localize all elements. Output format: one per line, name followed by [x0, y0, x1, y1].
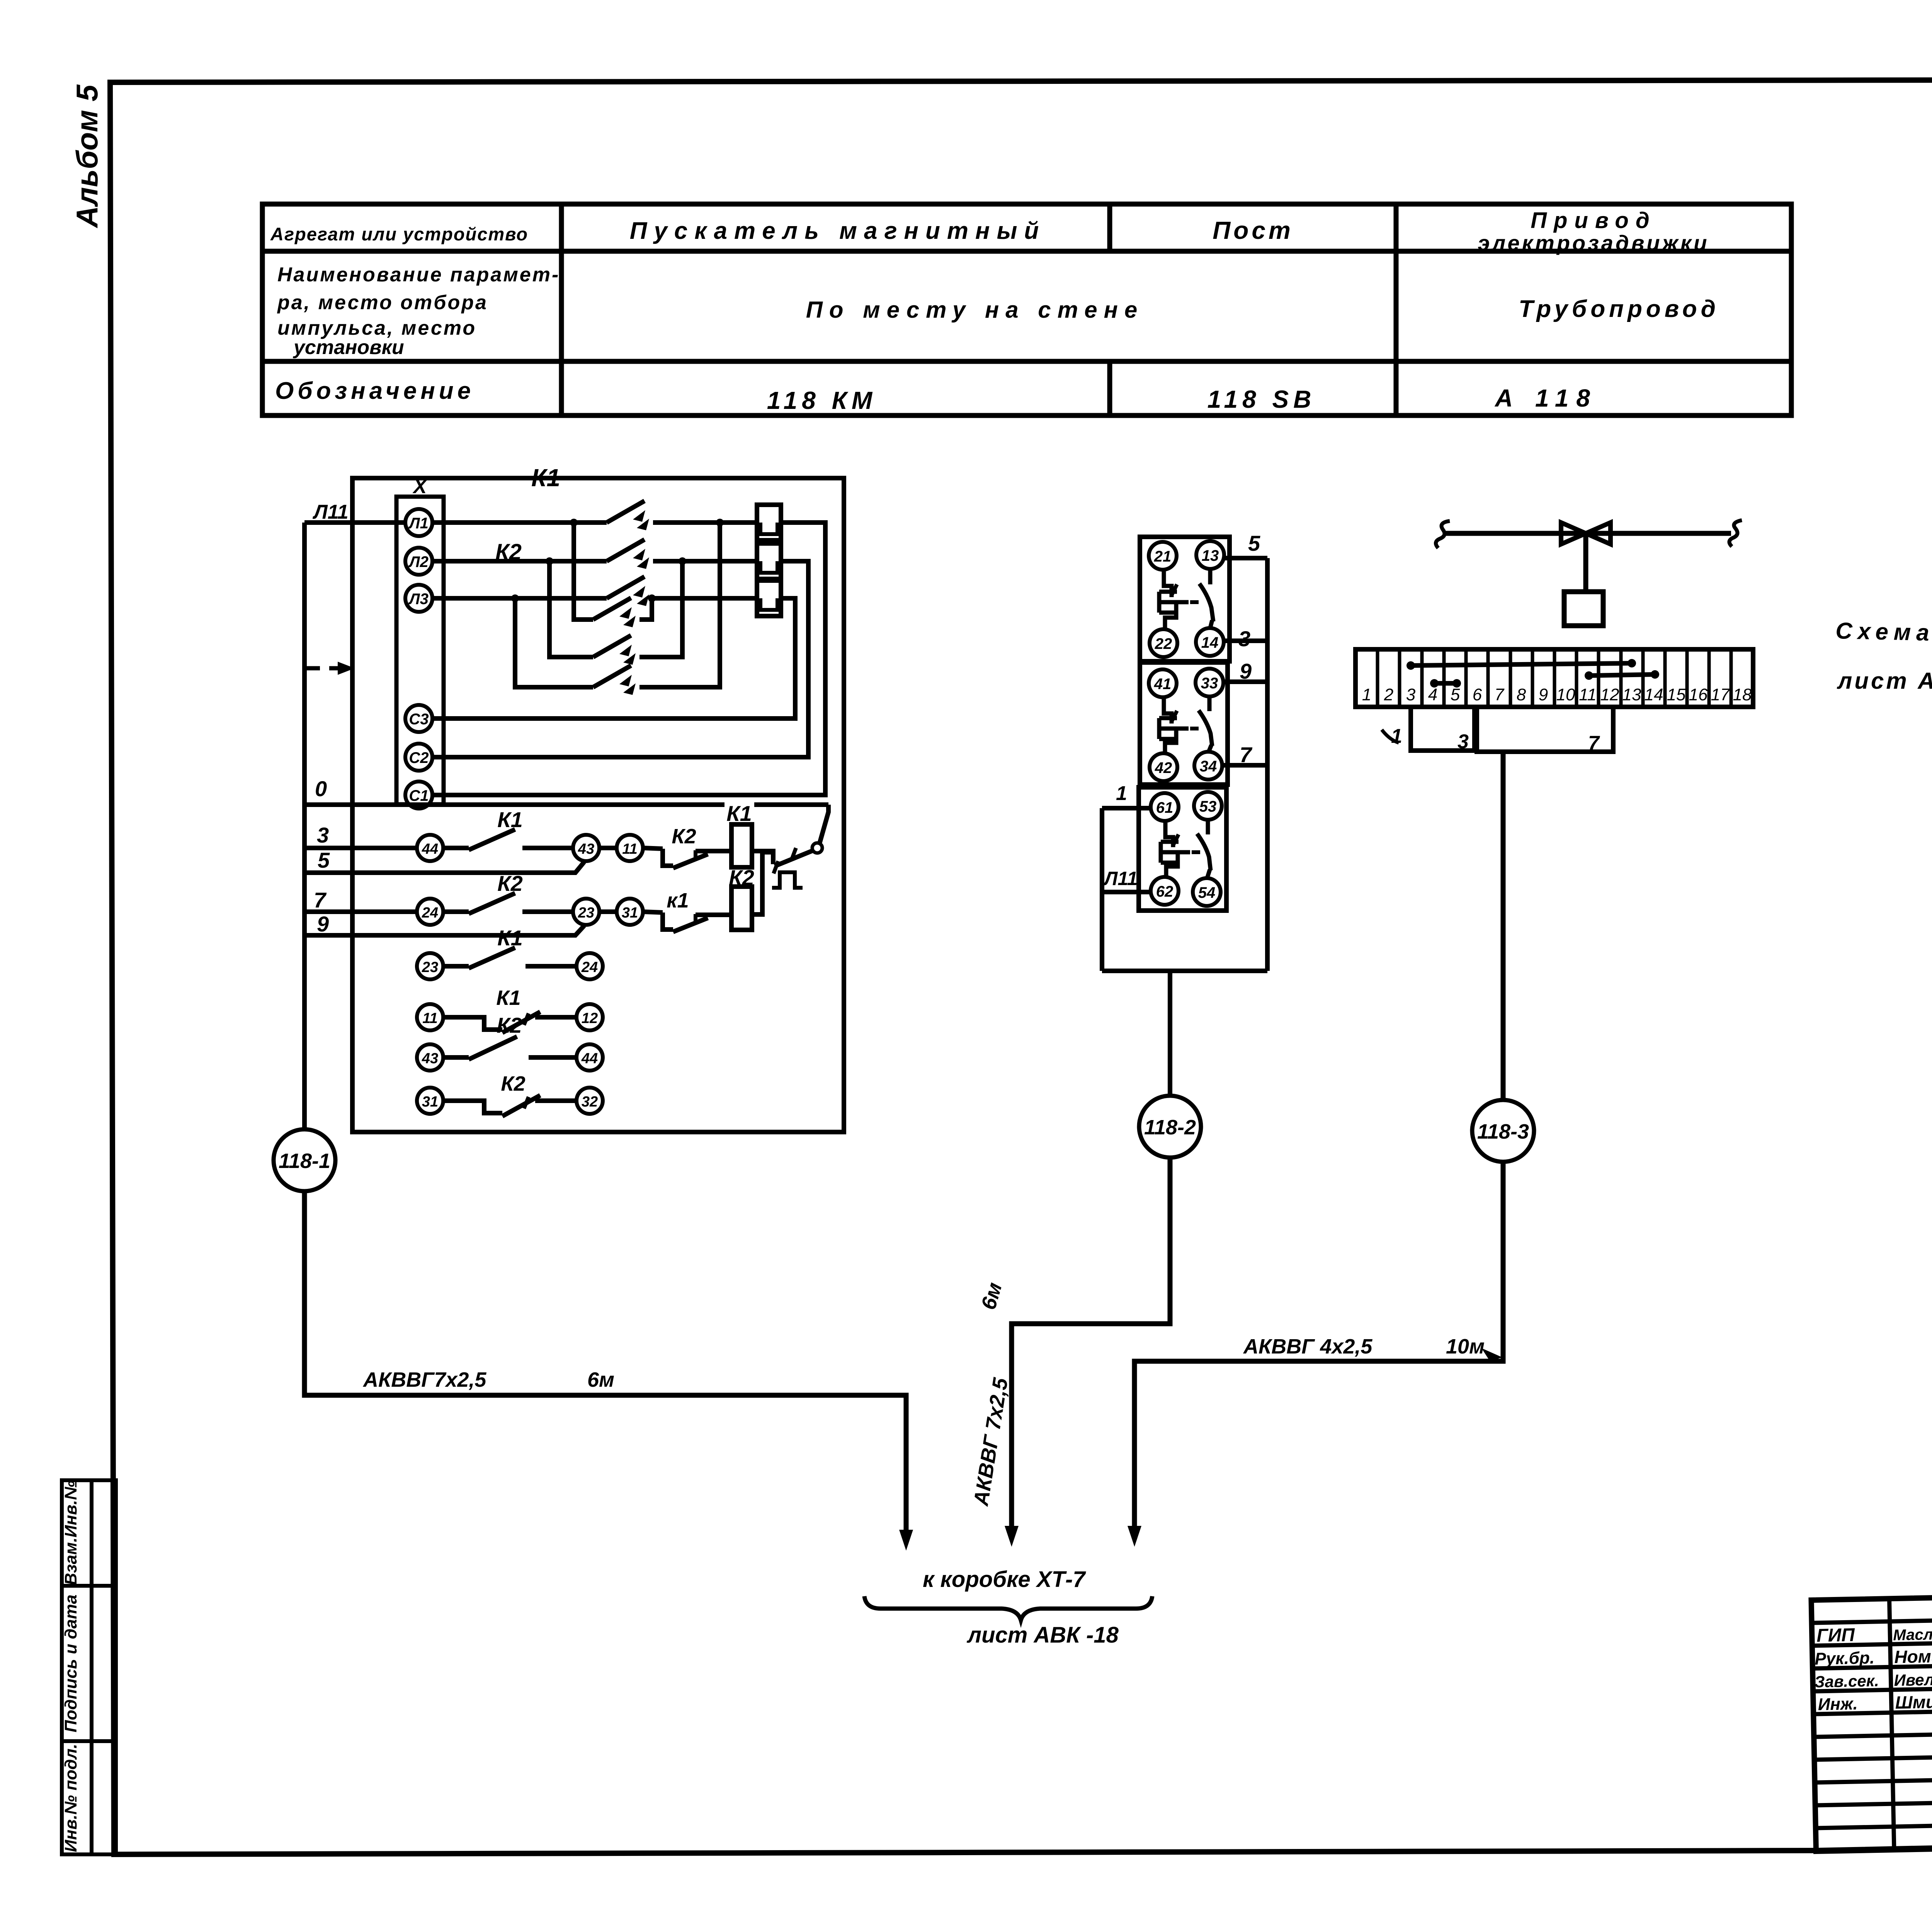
wire button to 0 bus: [820, 805, 828, 843]
wire valve drop: [1501, 752, 1506, 1100]
wire row3 after contact: [653, 596, 757, 601]
svg-text:7: 7: [1240, 742, 1253, 767]
contact K1 pole1: [607, 501, 645, 523]
svg-text:13: 13: [1622, 685, 1641, 704]
terminal 53: [1194, 792, 1222, 820]
cable mark 118-3: [1472, 1100, 1534, 1162]
svg-text:18: 18: [1733, 685, 1752, 704]
svg-text:11: 11: [622, 841, 637, 857]
svg-text:Инж.: Инж.: [1818, 1694, 1858, 1714]
svg-text:44: 44: [422, 841, 438, 857]
svg-text:С2: С2: [409, 749, 429, 766]
contact K2 pole3: [593, 666, 631, 687]
terminal 14: [1196, 628, 1224, 656]
terminal 24: [417, 899, 443, 925]
wire K2 drop1: [574, 523, 593, 620]
svg-text:С3: С3: [409, 711, 429, 728]
svg-text:ра, место отбора: ра, место отбора: [277, 291, 488, 314]
svg-text:4: 4: [1428, 685, 1437, 704]
svg-text:установки: установки: [293, 336, 404, 359]
terminal Л3: [405, 585, 432, 612]
stop button actuator: [772, 872, 803, 888]
node row3 drop: [511, 594, 519, 602]
svg-text:По месту на стене: По месту на стене: [806, 297, 1144, 323]
svg-text:5: 5: [1248, 531, 1260, 555]
svg-text:31: 31: [622, 905, 638, 921]
coil K2: [731, 887, 752, 930]
terminal 43: [573, 835, 599, 861]
thermal element F1: [757, 505, 781, 540]
svg-text:Наименование парамет-: Наименование парамет-: [277, 264, 560, 286]
wire coil K1 out: [752, 851, 773, 864]
svg-text:24: 24: [422, 905, 438, 921]
svg-text:к1: к1: [667, 889, 689, 912]
svg-text:31: 31: [422, 1094, 438, 1110]
svg-text:2: 2: [1384, 685, 1393, 704]
terminal 21: [1149, 542, 1177, 570]
svg-text:Масленников: Масленников: [1893, 1625, 1932, 1644]
cable 118-1 run: [304, 1191, 906, 1537]
cable group bracket A: [1411, 707, 1475, 751]
wire cable bus 118-1: [302, 523, 307, 1129]
svg-text:Привод: Привод: [1531, 208, 1656, 233]
terminal 22: [1150, 629, 1177, 657]
svg-text:АКВВГ7х2,5: АКВВГ7х2,5: [362, 1368, 486, 1391]
station block 1 box: [1140, 537, 1230, 661]
svg-text:К1: К1: [497, 926, 523, 950]
strip cell numbers 1-18: [1362, 685, 1752, 704]
svg-text:118-3: 118-3: [1477, 1120, 1529, 1143]
svg-text:Обозначение: Обозначение: [275, 378, 474, 404]
svg-text:ГИП: ГИП: [1816, 1625, 1855, 1646]
station block 2 box: [1140, 662, 1228, 785]
svg-text:15: 15: [1667, 685, 1686, 704]
wire row 9: [304, 926, 584, 935]
svg-text:7: 7: [314, 888, 327, 912]
wire K2 drop3: [515, 598, 593, 687]
terminal 54: [1193, 878, 1221, 906]
svg-text:12: 12: [582, 1010, 598, 1027]
svg-text:118 SB: 118 SB: [1207, 385, 1316, 413]
title block outer: [1811, 1585, 1932, 1851]
terminal 13: [1196, 541, 1224, 569]
svg-text:К2: К2: [497, 871, 523, 896]
wire F3 to C3: [432, 598, 795, 718]
svg-text:34: 34: [1200, 758, 1217, 775]
terminal box strip: [1355, 649, 1753, 707]
signature table grid: [1811, 1595, 1932, 1851]
wire station bottom: [1102, 969, 1267, 973]
svg-text:Подпись и дата: Подпись и дата: [61, 1595, 80, 1733]
svg-text:АКВВГ 4х2,5: АКВВГ 4х2,5: [1243, 1335, 1372, 1358]
wire 61 stub: [1102, 806, 1151, 810]
svg-text:11: 11: [1579, 685, 1597, 704]
svg-text:42: 42: [1155, 759, 1172, 776]
svg-text:14: 14: [1645, 685, 1663, 704]
svg-text:К1: К1: [726, 801, 752, 826]
wire 43 to 11: [599, 846, 617, 850]
svg-text:Шмидт: Шмидт: [1895, 1691, 1932, 1713]
cable group bracket B: [1477, 707, 1613, 752]
valve A118: [1561, 523, 1586, 544]
terminal 11: [617, 835, 643, 861]
svg-text:Зав.сек.: Зав.сек.: [1814, 1672, 1879, 1691]
svg-text:Рук.бр.: Рук.бр.: [1815, 1648, 1875, 1668]
arrow cable 118-1: [899, 1530, 913, 1551]
arrow cable 118-2: [1005, 1526, 1019, 1547]
svg-text:К2: К2: [497, 1013, 522, 1037]
wire 14 stub: [1224, 638, 1267, 643]
valve actuator box: [1564, 592, 1603, 626]
wire K2 pole1 out: [639, 598, 652, 620]
mech link dashes blk1: [1190, 600, 1202, 604]
contact K1 NC (row7): [663, 913, 673, 930]
svg-text:3: 3: [1238, 627, 1250, 651]
contact K1 NO (row3): [469, 829, 515, 850]
wire station right rail: [1265, 558, 1270, 971]
button NC 21-22: [1164, 570, 1172, 597]
svg-text:17: 17: [1711, 685, 1730, 704]
svg-text:118 КМ: 118 КМ: [767, 386, 877, 414]
svg-text:3: 3: [317, 823, 329, 847]
contact K1 pole2: [607, 540, 645, 561]
svg-text:9: 9: [1539, 685, 1548, 704]
svg-text:23: 23: [578, 905, 594, 921]
jumper 4-5: [1434, 681, 1457, 686]
arrow cable 118-3: [1128, 1526, 1141, 1547]
button NC 61-62: [1165, 821, 1173, 847]
wire row 5: [304, 862, 584, 873]
svg-text:5: 5: [318, 848, 330, 872]
svg-text:54: 54: [1198, 884, 1216, 901]
svg-text:Пускатель магнитный: Пускатель магнитный: [630, 218, 1046, 244]
mech link dashes blk3: [1192, 850, 1204, 854]
svg-text:К2: К2: [672, 825, 696, 848]
svg-text:Ивельская: Ивельская: [1894, 1670, 1932, 1689]
wire K2 drop2: [549, 561, 593, 657]
terminal 44: [417, 835, 443, 861]
wire station drop: [1168, 971, 1172, 1096]
brace к коробке: [864, 1596, 1152, 1620]
wire phase row2: [432, 559, 607, 564]
svg-text:21: 21: [1154, 548, 1172, 565]
svg-text:44: 44: [581, 1050, 598, 1067]
svg-text:23: 23: [422, 959, 438, 976]
station block 3 box: [1139, 787, 1226, 911]
contact K2 pole2: [593, 635, 631, 657]
wire 0 bus: [304, 802, 724, 807]
svg-text:118-2: 118-2: [1144, 1116, 1196, 1139]
pipe break right: [1729, 520, 1742, 546]
svg-text:11: 11: [422, 1010, 437, 1027]
wire to coil K2: [696, 913, 731, 917]
svg-text:33: 33: [1201, 675, 1218, 692]
svg-text:электрозадвижки: электрозадвижки: [1478, 231, 1709, 255]
svg-text:К1: К1: [496, 986, 520, 1010]
svg-text:10: 10: [1556, 685, 1575, 704]
terminal 33: [1196, 669, 1223, 696]
svg-text:Трубопровод: Трубопровод: [1519, 296, 1719, 322]
jumper 11-14: [1589, 674, 1655, 676]
terminal Л2: [405, 548, 432, 575]
wire contact to 23: [522, 909, 573, 914]
svg-text:3: 3: [1458, 730, 1469, 753]
wire 44 to contact: [443, 846, 469, 850]
svg-text:3: 3: [1406, 685, 1416, 704]
svg-text:43: 43: [422, 1050, 438, 1067]
strip cell dividers: [1378, 649, 1731, 707]
wire Л11 feed: [304, 520, 405, 525]
cable mark 118-1: [274, 1129, 335, 1191]
wire 31 to K1 NC: [643, 912, 663, 913]
terminal strip X: [396, 497, 444, 804]
wire 13 stub: [1224, 556, 1267, 560]
dashed stub to enclosure: [305, 666, 344, 671]
svg-text:8: 8: [1517, 685, 1526, 704]
svg-text:7: 7: [1588, 732, 1600, 754]
aux contact 23-K1-24: [417, 953, 443, 979]
terminal Л1: [405, 509, 432, 536]
wire 33 stub: [1223, 679, 1267, 684]
svg-text:Агрегат или устройство: Агрегат или устройство: [270, 224, 528, 244]
svg-text:С1: С1: [409, 787, 429, 804]
thermal element F2: [757, 543, 781, 579]
terminal С3: [405, 705, 432, 732]
wire 62 stub: [1102, 890, 1151, 894]
svg-text:Пост: Пост: [1213, 216, 1294, 244]
svg-text:Альбом 5: Альбом 5: [70, 84, 104, 228]
svg-text:6м: 6м: [587, 1368, 614, 1391]
cable 118-2 run: [1012, 1158, 1170, 1534]
terminal 42: [1150, 753, 1177, 781]
contact NO 53-54: [1206, 820, 1210, 834]
contact K2 pole1: [593, 598, 631, 620]
valve stem: [1583, 533, 1588, 592]
wire row 3: [304, 846, 417, 850]
svg-text:24: 24: [581, 959, 598, 976]
pipe break left: [1436, 521, 1450, 548]
starter 118KM enclosure box: [352, 478, 844, 1132]
wire station left bus: [1100, 808, 1104, 971]
wire to coil K1: [696, 849, 731, 853]
svg-text:X: X: [412, 475, 428, 498]
svg-text:А 118: А 118: [1494, 384, 1598, 412]
svg-text:лист АВК - 19: лист АВК - 19: [1837, 668, 1932, 694]
svg-text:Взам.Инв.№: Взам.Инв.№: [61, 1481, 80, 1585]
svg-text:К2: К2: [501, 1072, 525, 1095]
svg-text:13: 13: [1202, 547, 1219, 564]
coil K1: [731, 824, 752, 867]
wire 34 stub: [1222, 763, 1267, 768]
svg-text:1: 1: [1362, 685, 1371, 704]
wire 23 to 31: [599, 909, 617, 914]
aux contact 11-K1-12 NC: [417, 1004, 443, 1030]
terminal 23: [573, 899, 599, 925]
svg-text:Л11: Л11: [312, 501, 349, 523]
svg-text:9: 9: [1240, 659, 1252, 683]
node row2 drop: [546, 557, 553, 565]
svg-text:к коробке ХТ-7: к коробке ХТ-7: [923, 1567, 1086, 1592]
svg-text:6: 6: [1473, 685, 1482, 704]
svg-text:К1: К1: [497, 807, 523, 832]
svg-text:Л2: Л2: [408, 553, 429, 570]
svg-text:К1: К1: [531, 464, 560, 492]
wire K2 pole2 out: [639, 561, 682, 657]
wire row2 after contact: [653, 559, 757, 564]
svg-text:10м: 10м: [1446, 1335, 1485, 1358]
contact NO 13-14: [1208, 569, 1213, 584]
svg-text:43: 43: [578, 841, 594, 857]
button NC 41-42: [1164, 697, 1172, 724]
svg-text:Л3: Л3: [408, 591, 429, 608]
wire K2 pole3 out: [639, 523, 720, 687]
svg-text:12: 12: [1600, 685, 1619, 704]
thermal element F3: [757, 581, 781, 616]
contact K2 NC (row3): [663, 849, 673, 866]
aux contact 31-K2-32 NC: [417, 1088, 443, 1114]
svg-text:0: 0: [315, 776, 327, 801]
stop button terminal circle: [812, 843, 822, 853]
svg-text:7: 7: [1495, 685, 1505, 704]
wire row 7: [304, 909, 417, 914]
wire F1 to C1: [432, 523, 825, 795]
svg-text:1: 1: [1116, 782, 1127, 805]
cable 118-3 run: [1134, 1162, 1503, 1534]
contact K2 NO (row7): [469, 893, 515, 914]
terminal 34: [1194, 752, 1222, 780]
svg-text:Инв.№ подл.: Инв.№ подл.: [61, 1744, 80, 1852]
svg-text:22: 22: [1155, 635, 1172, 652]
wire 24 to contact: [443, 909, 469, 914]
svg-text:53: 53: [1199, 798, 1217, 815]
wire phase row3: [432, 596, 607, 601]
svg-text:5: 5: [1451, 685, 1460, 704]
svg-text:Номин: Номин: [1894, 1646, 1932, 1667]
wire F2 to C2: [432, 561, 808, 757]
wire phase row1: [432, 520, 607, 525]
aux contact 43-K2-44: [417, 1044, 443, 1071]
terminal 61: [1151, 793, 1179, 821]
terminal С1: [405, 781, 432, 809]
contact K1 pole3: [607, 577, 645, 598]
svg-text:32: 32: [582, 1094, 598, 1110]
title block: [1811, 1585, 1932, 1881]
left margin table: [62, 1480, 116, 1854]
wire coil K2 out: [752, 852, 773, 914]
pipeline: [1445, 531, 1731, 536]
terminal 31: [617, 899, 643, 925]
svg-text:61: 61: [1156, 799, 1173, 816]
svg-text:лист АВК -18: лист АВК -18: [966, 1622, 1119, 1648]
svg-text:9: 9: [317, 912, 329, 936]
legend table grid: [262, 204, 1791, 415]
cable mark 118-2: [1139, 1096, 1201, 1158]
terminal 41: [1149, 669, 1177, 697]
wire row1 after contact: [653, 520, 757, 525]
svg-text:41: 41: [1154, 676, 1172, 693]
wire contact to 43: [522, 846, 573, 850]
stop button NC: [775, 851, 813, 866]
svg-text:16: 16: [1689, 685, 1708, 704]
mech link dashes blk2: [1190, 727, 1202, 730]
node row1 drop: [570, 519, 578, 526]
terminal 62: [1151, 877, 1179, 905]
svg-text:62: 62: [1156, 883, 1173, 900]
contact NO 33-34: [1207, 696, 1212, 711]
svg-text:118-1: 118-1: [279, 1149, 330, 1173]
svg-text:Л11: Л11: [1103, 868, 1138, 889]
terminal С2: [405, 744, 432, 771]
wire 11 to K2 NC: [643, 848, 663, 849]
jumper 3-13: [1411, 663, 1632, 666]
svg-text:14: 14: [1201, 634, 1219, 651]
svg-text:1: 1: [1391, 725, 1402, 747]
svg-text:Л1: Л1: [408, 515, 429, 532]
